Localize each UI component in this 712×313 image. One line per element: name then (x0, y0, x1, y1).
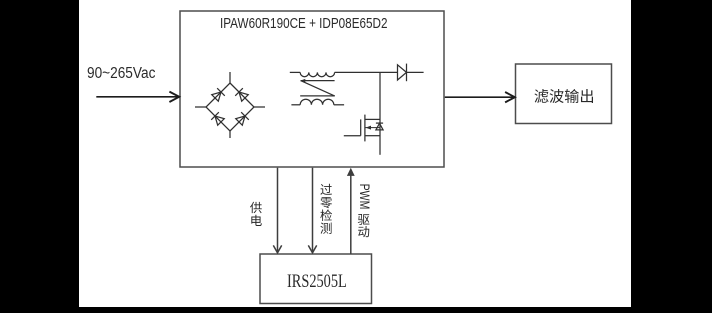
svg-text:PWM: PWM (357, 184, 372, 210)
